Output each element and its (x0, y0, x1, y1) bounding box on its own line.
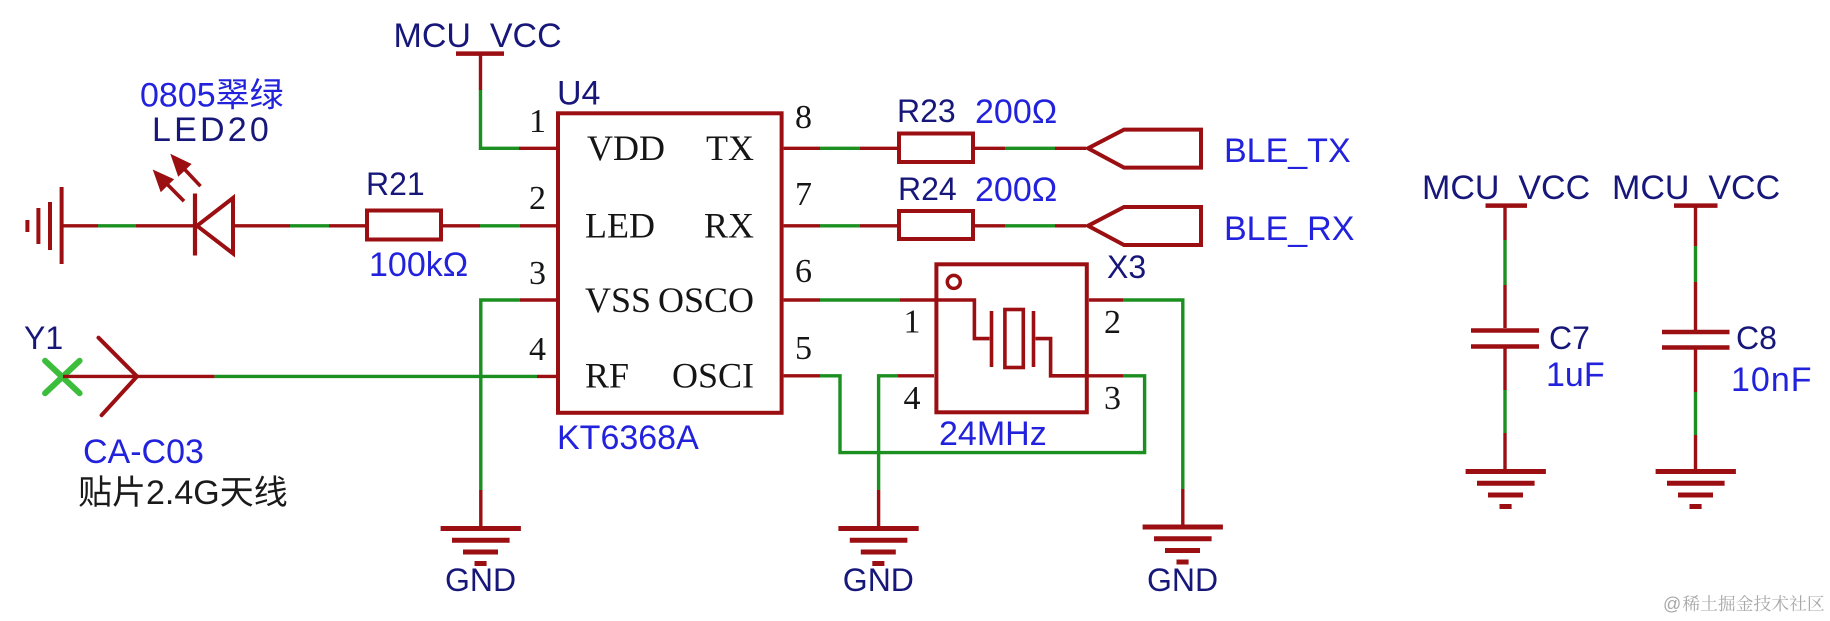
svg-text:RF: RF (585, 356, 629, 396)
wire crystal pin4 to GND (879, 376, 934, 527)
wire VCC to C8 (1694, 206, 1697, 330)
wire pin3 VSS to GND (481, 300, 556, 528)
svg-text:GND: GND (1147, 562, 1218, 598)
svg-text:2: 2 (529, 180, 546, 217)
ground under C7 (1466, 472, 1546, 507)
ground GND under crystal (838, 529, 918, 564)
ground GND right of crystal (1143, 527, 1223, 562)
svg-text:Y1: Y1 (24, 320, 63, 356)
svg-text:GND: GND (445, 562, 516, 598)
capacitor C7 (1471, 331, 1539, 347)
svg-text:4: 4 (529, 331, 546, 368)
power bar C8 (1674, 203, 1718, 208)
svg-text:0805: 0805 (140, 77, 216, 115)
svg-text:MCU_VCC: MCU_VCC (1422, 169, 1590, 207)
resistor R24 (899, 211, 973, 239)
svg-text:VSS: VSS (585, 280, 651, 320)
wire R21 to pin2 (443, 224, 556, 227)
wire pin6 OSCO to crystal pin1 (784, 298, 934, 301)
svg-text:MCU_VCC: MCU_VCC (1612, 169, 1780, 207)
svg-text:BLE_RX: BLE_RX (1224, 210, 1354, 248)
svg-text:OSCO: OSCO (658, 280, 754, 320)
svg-text:2: 2 (1104, 304, 1121, 341)
svg-text:R24: R24 (898, 171, 957, 207)
wire pin5 OSCI to crystal pin3 (784, 376, 1145, 453)
power bar MCU_VCC top (456, 51, 504, 56)
svg-text:LED20: LED20 (152, 111, 272, 149)
svg-text:LED: LED (585, 206, 655, 246)
ground GND under U4 (441, 529, 521, 564)
svg-text:OSCI: OSCI (672, 356, 754, 396)
crystal internal symbol (934, 300, 1089, 376)
wire pin8 to R23 (784, 147, 897, 150)
svg-text:RX: RX (704, 206, 754, 246)
power bar C7 (1486, 203, 1528, 208)
svg-text:VDD: VDD (587, 128, 665, 168)
capacitor C8 (1662, 332, 1730, 348)
svg-text:10nF: 10nF (1731, 361, 1813, 399)
svg-text:24MHz: 24MHz (939, 415, 1047, 453)
svg-text:8: 8 (795, 99, 812, 136)
LED20 diode symbol (195, 194, 233, 256)
IC U4 body (558, 113, 782, 413)
LED arrows (156, 157, 201, 201)
svg-text:@: @ (1663, 594, 1681, 614)
resistor R21 (367, 211, 441, 240)
antenna no-ERC cross (45, 361, 80, 393)
svg-text:R23: R23 (897, 93, 956, 129)
svg-text:GND: GND (843, 562, 914, 598)
ground under C8 (1656, 472, 1736, 507)
svg-text:C8: C8 (1736, 320, 1777, 356)
svg-text:5: 5 (795, 330, 812, 367)
svg-text:MCU_VCC: MCU_VCC (394, 17, 562, 55)
wire earth to LED (62, 224, 193, 227)
svg-text:U4: U4 (557, 75, 600, 113)
earth ground left (rotated) (27, 187, 61, 264)
svg-text:KT6368A: KT6368A (557, 419, 699, 457)
wire pin7 to R24 (784, 224, 897, 227)
port BLE_TX (1088, 130, 1201, 168)
svg-text:BLE_TX: BLE_TX (1224, 132, 1351, 170)
wire R24 to port (975, 224, 1086, 227)
label antenna chinese (79, 475, 142, 506)
wire LED to R21 (235, 224, 365, 227)
svg-text:R21: R21 (366, 166, 425, 202)
svg-text:6: 6 (795, 253, 812, 290)
wire antenna to pin4 RF (63, 375, 556, 378)
svg-text:2.4G: 2.4G (146, 474, 220, 512)
svg-text:4: 4 (904, 380, 921, 417)
svg-text:1: 1 (904, 304, 921, 341)
svg-text:100kΩ: 100kΩ (369, 246, 468, 284)
svg-text:CA-C03: CA-C03 (83, 433, 204, 471)
wire C7 to GND (1503, 348, 1506, 470)
wire crystal pin2 to GND (1089, 300, 1183, 526)
svg-text:X3: X3 (1107, 249, 1146, 285)
port BLE_RX (1088, 207, 1201, 245)
wire C8 to GND (1694, 349, 1697, 470)
svg-text:3: 3 (529, 255, 546, 292)
wire R23 to port (975, 147, 1086, 150)
svg-text:200Ω: 200Ω (975, 93, 1057, 131)
wire VCC stem to pin1 (481, 54, 557, 149)
resistor R23 (899, 134, 973, 163)
svg-text:1uF: 1uF (1546, 356, 1605, 394)
svg-text:3: 3 (1104, 380, 1121, 417)
crystal pin1 marker circle (947, 275, 960, 288)
svg-text:7: 7 (795, 176, 812, 213)
svg-text:C7: C7 (1549, 320, 1590, 356)
crystal X3 body (936, 264, 1086, 412)
antenna Y1 symbol (99, 338, 138, 416)
wire VCC to C7 (1503, 206, 1506, 328)
svg-text:1: 1 (529, 103, 546, 140)
svg-text:200Ω: 200Ω (975, 171, 1057, 209)
svg-text:TX: TX (706, 128, 754, 168)
